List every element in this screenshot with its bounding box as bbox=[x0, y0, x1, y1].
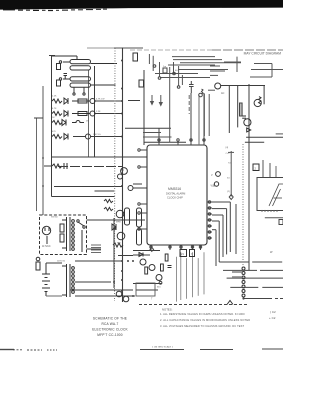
svg-text:2.2K: 2.2K bbox=[96, 111, 101, 113]
wire bbox=[34, 117, 43, 119]
node B bbox=[113, 227, 116, 230]
wire bbox=[188, 95, 190, 114]
node dots lower bus bbox=[113, 260, 134, 297]
wire bbox=[75, 295, 135, 297]
node arrow bbox=[227, 301, 233, 305]
wire bbox=[230, 151, 232, 197]
resistor R4 bbox=[52, 112, 62, 116]
IC U1 left pins bbox=[138, 149, 147, 230]
wire bbox=[198, 95, 200, 145]
wire bbox=[118, 255, 133, 257]
pad bbox=[177, 86, 180, 89]
coil L2 bbox=[72, 112, 90, 116]
wire bbox=[114, 47, 143, 49]
capacitor C4 box bbox=[190, 250, 195, 257]
wire bbox=[88, 70, 90, 157]
svg-text:SW 60: SW 60 bbox=[51, 217, 58, 219]
display wire dotted coil bus bbox=[242, 144, 244, 265]
power supply dashed box bbox=[40, 215, 87, 255]
transistor Q14 bbox=[149, 265, 155, 271]
IC U1 top pins bbox=[158, 93, 205, 145]
svg-text:MM5316: MM5316 bbox=[168, 187, 181, 191]
svg-text:10K 5%: 10K 5% bbox=[93, 134, 101, 136]
pad bbox=[59, 78, 61, 80]
node A bbox=[122, 169, 124, 171]
svg-text:115V 60: 115V 60 bbox=[57, 261, 66, 263]
wire bbox=[248, 84, 250, 270]
wire bus y48 bbox=[87, 47, 114, 49]
component box 2 bbox=[253, 164, 259, 171]
transistor Q11 bbox=[216, 172, 221, 177]
coil L3 bbox=[72, 121, 84, 123]
resistor R6 bbox=[52, 135, 62, 139]
svg-text:DIGITAL ALARM: DIGITAL ALARM bbox=[166, 192, 185, 196]
wire bbox=[75, 281, 111, 283]
wire bbox=[143, 132, 161, 134]
wire bbox=[125, 127, 171, 129]
svg-text:(2): (2) bbox=[227, 191, 230, 193]
capacitor C1 bbox=[64, 74, 68, 80]
IC U1 right pins bbox=[207, 201, 212, 239]
pad bbox=[153, 65, 156, 68]
svg-text:CLOCK CHIP: CLOCK CHIP bbox=[167, 196, 183, 200]
wire bbox=[94, 66, 96, 157]
wire bbox=[49, 55, 55, 57]
wire bbox=[143, 70, 145, 145]
wire bbox=[83, 87, 85, 93]
switch box bbox=[136, 283, 155, 296]
crystal Y2 bbox=[63, 77, 116, 87]
display digit shape bbox=[269, 184, 283, 206]
resistor R10 bbox=[240, 103, 243, 116]
resistor R15 bbox=[161, 264, 164, 271]
svg-text:117VAC: 117VAC bbox=[42, 245, 51, 248]
svg-text:MFP'T CC-1000: MFP'T CC-1000 bbox=[97, 333, 122, 337]
resistor R32 bbox=[163, 68, 167, 73]
display bottom connector pads bbox=[261, 210, 278, 212]
wire bbox=[208, 94, 210, 136]
node dots left bus bbox=[42, 60, 123, 188]
wire bbox=[54, 186, 123, 188]
wire main bus x122 bbox=[122, 48, 124, 302]
wire bbox=[269, 163, 271, 178]
capacitor C3 box bbox=[180, 250, 187, 257]
node bbox=[242, 297, 244, 299]
transistor Q8 bbox=[215, 83, 221, 89]
capacitor C10 bbox=[125, 208, 130, 225]
diode CR7 bbox=[139, 253, 143, 257]
pad bbox=[199, 93, 203, 97]
IC bottom pin drop wires bbox=[177, 252, 205, 301]
resistor R30 bbox=[133, 53, 138, 61]
wire bbox=[95, 113, 123, 115]
scan header toner specks bbox=[3, 9, 107, 11]
wire bbox=[70, 289, 133, 291]
resistor R9 bbox=[104, 207, 113, 210]
svg-text:+ C2: + C2 bbox=[269, 316, 276, 320]
wire bbox=[73, 136, 86, 138]
pad bbox=[158, 77, 161, 80]
svg-text:NOTES:: NOTES: bbox=[162, 308, 173, 312]
stage row 5 bbox=[44, 163, 67, 169]
connector box bbox=[279, 220, 283, 225]
wire bbox=[95, 100, 123, 102]
right ladder wires bbox=[219, 262, 283, 299]
capacitor C12 bbox=[137, 229, 142, 245]
notes text bbox=[160, 308, 250, 329]
mid cluster components bbox=[112, 218, 123, 288]
wire bbox=[262, 160, 264, 178]
svg-text:V(B): V(B) bbox=[211, 185, 216, 188]
transistor Q17 bbox=[116, 291, 122, 297]
resistor R2 bbox=[57, 80, 61, 86]
transistor Q13 bbox=[140, 259, 146, 265]
scan header bar bbox=[0, 0, 283, 10]
transistor Q10 bbox=[244, 119, 251, 126]
resistor R21 bbox=[113, 243, 123, 247]
wire collector bus bbox=[221, 85, 265, 87]
transistor Q6 bbox=[128, 186, 133, 191]
svg-text:RCA WA-7: RCA WA-7 bbox=[102, 322, 119, 326]
resistor R8 bbox=[104, 199, 113, 202]
wire bbox=[46, 262, 62, 264]
wire bbox=[228, 86, 230, 133]
wire bbox=[51, 55, 53, 197]
node diamond bbox=[229, 195, 233, 200]
wire arrow drop bbox=[151, 95, 154, 105]
svg-text:ELECTRONIC CLOCK: ELECTRONIC CLOCK bbox=[92, 328, 128, 332]
bottom border dashed bbox=[139, 304, 247, 306]
transistor Q1 bbox=[90, 99, 95, 104]
IC right pad routing bbox=[212, 202, 236, 266]
svg-text:MAY CIRCUIT DIAGRAM: MAY CIRCUIT DIAGRAM bbox=[244, 52, 282, 56]
transistor Q18 bbox=[123, 296, 129, 302]
diode CR3 bbox=[62, 120, 66, 126]
svg-text:MFB: MFB bbox=[116, 222, 121, 224]
diode CR5 bbox=[112, 224, 116, 230]
pad bbox=[173, 72, 176, 75]
wire bbox=[75, 260, 122, 262]
wire bbox=[246, 136, 283, 138]
pin label column bbox=[226, 147, 232, 193]
svg-text:1 CM GRID SCALE 1: 1 CM GRID SCALE 1 bbox=[152, 346, 174, 349]
wire bbox=[275, 166, 277, 178]
wire bbox=[208, 89, 215, 91]
wire arrow drop bbox=[159, 95, 162, 106]
stage row 2 bbox=[52, 108, 123, 117]
margin marks bbox=[269, 310, 276, 320]
resistor R7 bbox=[52, 164, 62, 168]
svg-text:1. ALL RESISTANCE VALUES IN OH: 1. ALL RESISTANCE VALUES IN OHMS UNLESS … bbox=[160, 312, 245, 316]
wire bbox=[133, 250, 160, 252]
wire bbox=[228, 151, 234, 153]
transistor Q5 bbox=[118, 174, 123, 179]
wire bbox=[136, 289, 158, 291]
svg-text:O-C: O-C bbox=[226, 153, 230, 155]
wire bbox=[113, 255, 115, 288]
wire bbox=[263, 85, 265, 104]
capacitor C11 bbox=[137, 208, 142, 227]
bold dashes bbox=[232, 272, 242, 277]
pad bbox=[83, 93, 85, 95]
resistor R19 bbox=[60, 234, 64, 242]
diode CR2 bbox=[64, 111, 68, 117]
wire bbox=[52, 196, 115, 198]
coil L4 winding chain bbox=[242, 267, 245, 297]
wire bbox=[58, 166, 123, 168]
wire bbox=[237, 85, 239, 127]
battery BT1 bbox=[42, 263, 50, 296]
resistor R11 zigzag bbox=[259, 97, 261, 104]
wire bbox=[44, 165, 52, 167]
wire bbox=[133, 283, 162, 285]
IC U1 bottom pins bbox=[150, 245, 202, 250]
stage row 1 bbox=[52, 96, 123, 105]
wire bbox=[133, 183, 142, 185]
wire bbox=[133, 187, 147, 189]
wire bbox=[133, 254, 150, 256]
top-right drop wires bbox=[149, 54, 241, 142]
pad bbox=[59, 61, 61, 63]
svg-text:3. ALL VOLTAGES MEASURED TO CH: 3. ALL VOLTAGES MEASURED TO CHASSIS GROU… bbox=[160, 324, 244, 328]
svg-text:AC: AC bbox=[221, 92, 225, 95]
resistor R3 bbox=[52, 99, 62, 103]
wire bbox=[265, 217, 283, 219]
capacitor C15 bbox=[168, 266, 172, 268]
display module outline bbox=[257, 178, 283, 211]
svg-text:SCHEMATIC OF THE: SCHEMATIC OF THE bbox=[93, 317, 127, 321]
stage row 4 bbox=[52, 131, 123, 140]
diode CR6 bbox=[247, 128, 251, 132]
transistor Q4 bbox=[121, 168, 128, 175]
page top border dashed bbox=[130, 49, 212, 51]
transformer T1 bbox=[62, 217, 74, 251]
transistor Q19 bbox=[116, 210, 124, 218]
resistor R18 bbox=[60, 224, 64, 232]
bottom cluster bbox=[133, 247, 172, 300]
wire bbox=[143, 136, 172, 138]
wire bbox=[204, 94, 206, 136]
IC U1 clock chip bbox=[147, 145, 207, 245]
stage row 3 bbox=[52, 117, 89, 126]
crystal Y1 bbox=[52, 56, 117, 70]
svg-text:[4]: [4] bbox=[226, 147, 229, 149]
transistor Q2 bbox=[90, 111, 95, 116]
switch S1 bbox=[77, 220, 85, 252]
transformer T2 bbox=[62, 264, 74, 297]
AC plug P1 bbox=[42, 226, 50, 244]
wire bbox=[87, 248, 102, 250]
capacitor C13 bbox=[189, 81, 194, 93]
svg-text:4.7K: 4.7K bbox=[52, 108, 57, 110]
wire bbox=[73, 87, 75, 93]
capacitor C2 bbox=[64, 163, 67, 169]
top-right bus wires bbox=[155, 57, 283, 78]
transistor Q3 bbox=[86, 134, 91, 139]
capacitor C14 bbox=[242, 116, 246, 118]
resistor R31 bbox=[139, 80, 144, 87]
resistor R1 bbox=[57, 64, 61, 70]
wire bbox=[245, 141, 264, 143]
wire bbox=[276, 133, 283, 135]
svg-text:2.2K: 2.2K bbox=[52, 96, 57, 98]
wire bbox=[87, 219, 146, 221]
resistor R16 bbox=[165, 254, 168, 261]
resistor R33 bbox=[202, 89, 204, 94]
wire left bus A bbox=[36, 118, 38, 211]
pad bbox=[73, 93, 75, 95]
crystal filter lines bbox=[91, 245, 101, 253]
node diamond bbox=[150, 247, 154, 251]
svg-text:4.7K 1W: 4.7K 1W bbox=[96, 99, 105, 101]
pad bbox=[159, 281, 162, 284]
wire node row bbox=[51, 156, 147, 158]
transistor Q15 bbox=[156, 275, 162, 281]
wire IC top bus bbox=[144, 141, 186, 143]
coil L1 bbox=[72, 99, 90, 103]
wire bbox=[95, 190, 115, 192]
wire bbox=[128, 100, 140, 102]
resistor R20 bbox=[36, 257, 40, 270]
diode CR1 bbox=[64, 98, 68, 104]
transistor Q20 bbox=[117, 232, 125, 240]
page bottom edge dashes bbox=[0, 349, 283, 350]
svg-text:2. ALL CAPACITANCE VALUES IN M: 2. ALL CAPACITANCE VALUES IN MICROFARADS… bbox=[160, 318, 250, 322]
wire dotted bus x114.5 bbox=[114, 48, 117, 301]
resistor R14 bbox=[145, 267, 148, 274]
diode CR4 bbox=[64, 134, 68, 140]
transistor Q12 bbox=[214, 182, 218, 186]
transistor Q9 bbox=[254, 99, 261, 106]
wire left bus B bbox=[42, 86, 44, 215]
resistor R5 bbox=[52, 121, 62, 125]
title block text bbox=[92, 317, 128, 338]
svg-text:( C2: ( C2 bbox=[270, 310, 276, 314]
IC U1 part number bbox=[166, 187, 185, 200]
wire bbox=[46, 295, 62, 297]
wire bbox=[113, 218, 115, 255]
